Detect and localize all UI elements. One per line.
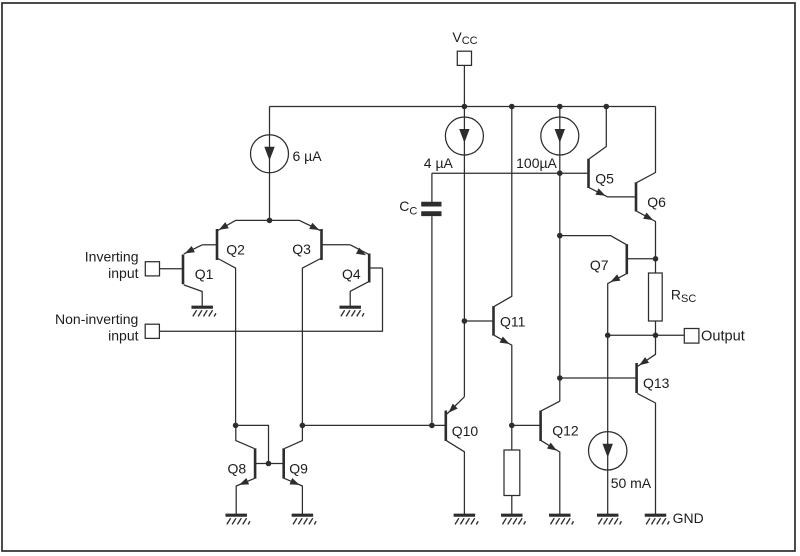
svg-text:50 mA: 50 mA (611, 475, 652, 491)
svg-text:Q12: Q12 (552, 423, 579, 439)
svg-text:Output: Output (701, 328, 745, 344)
svg-text:100µA: 100µA (516, 155, 557, 171)
svg-text:Q4: Q4 (342, 266, 361, 282)
svg-text:input: input (108, 265, 138, 281)
svg-text:Q1: Q1 (195, 266, 214, 282)
svg-text:Q5: Q5 (595, 170, 614, 186)
svg-text:Inverting: Inverting (85, 249, 139, 265)
svg-text:Q11: Q11 (500, 313, 526, 329)
svg-text:4 µA: 4 µA (424, 155, 454, 171)
svg-text:6 µA: 6 µA (293, 148, 323, 164)
svg-text:Q7: Q7 (590, 257, 609, 273)
svg-text:Non-inverting: Non-inverting (55, 311, 138, 327)
svg-text:Q2: Q2 (226, 241, 245, 257)
svg-text:Q8: Q8 (228, 461, 247, 477)
svg-text:GND: GND (673, 510, 704, 526)
svg-text:Q3: Q3 (292, 241, 311, 257)
svg-text:Q6: Q6 (647, 194, 666, 210)
svg-text:Q13: Q13 (643, 375, 670, 391)
svg-text:Q10: Q10 (452, 423, 479, 439)
svg-text:Q9: Q9 (289, 461, 308, 477)
svg-text:input: input (108, 327, 138, 343)
